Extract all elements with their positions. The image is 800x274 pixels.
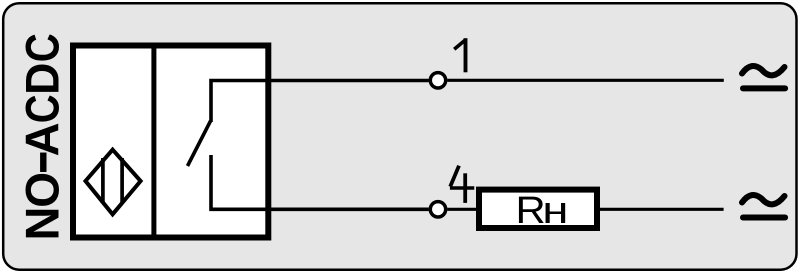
label NO-ACDC (vertical, reads bottom to top) <box>10 33 70 240</box>
terminal 4 circle <box>430 202 445 217</box>
proximity sensor symbol (diamond) <box>86 150 141 215</box>
sensor box U1 <box>73 46 268 238</box>
resistor RH box <box>479 190 597 228</box>
wire terminal 1 to AC <box>447 79 724 82</box>
AC/DC symbol bottom: bar <box>743 215 785 221</box>
switch top contact + wire to terminal 1 <box>211 81 429 123</box>
svg-text:н: н <box>542 190 568 232</box>
wire resistor to AC <box>600 208 724 211</box>
label 1 <box>454 38 465 72</box>
switch lever <box>188 121 211 166</box>
svg-text:C: C <box>18 94 70 123</box>
diamond inner line right <box>120 158 124 204</box>
AC/DC symbol top: tilde <box>742 66 785 75</box>
svg-text:N: N <box>16 207 69 241</box>
svg-text:O: O <box>16 172 69 208</box>
divider <box>151 46 156 238</box>
terminal 1 circle <box>430 73 445 88</box>
svg-text:C: C <box>17 33 70 62</box>
svg-text:R: R <box>516 190 546 232</box>
AC/DC symbol bottom: tilde <box>742 195 785 204</box>
diamond inner line left <box>101 158 105 204</box>
switch bottom contact + wire to terminal 4 <box>211 155 429 209</box>
wire terminal 4 to resistor <box>447 208 479 211</box>
AC/DC symbol top: bar <box>743 85 785 91</box>
label 4 <box>450 166 474 203</box>
svg-text:D: D <box>17 63 69 95</box>
svg-text:A: A <box>16 122 69 156</box>
